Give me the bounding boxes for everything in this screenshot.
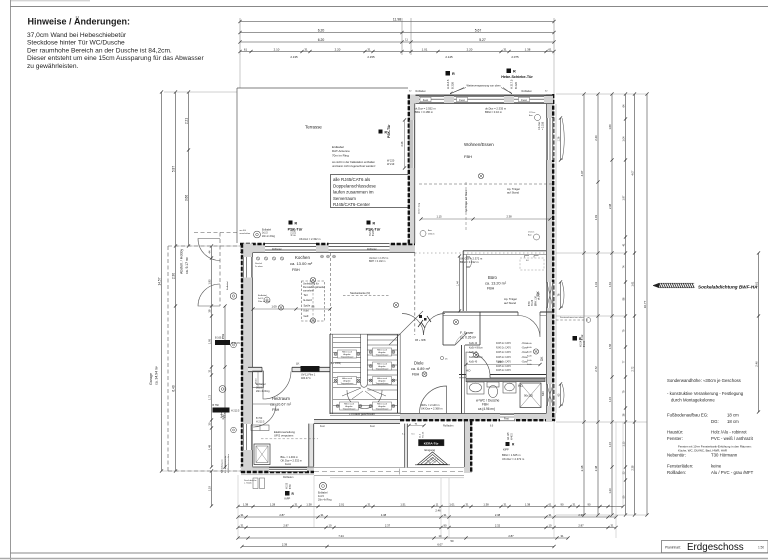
south wall east recessed part: [400, 413, 556, 421]
corridor wall below Buero: [443, 311, 553, 313]
far right dim chain: [758, 253, 760, 412]
svg-text:LK: LK: [296, 362, 300, 366]
svg-text:ca (4.96 m²): ca (4.96 m²): [478, 407, 495, 411]
svg-text:Diele: Diele: [414, 361, 424, 366]
svg-text:Treppenbauer: Treppenbauer: [343, 408, 356, 411]
svg-text:KaSt-H 60cm: KaSt-H 60cm: [469, 347, 483, 350]
corridor dim line: [466, 364, 540, 366]
kitchen socket glyphs: [321, 255, 324, 258]
svg-text:Rollladen: Rollladen: [367, 248, 378, 251]
PSK-Tuer label left: [289, 221, 293, 225]
svg-text:s. Statik: s. Statik: [244, 482, 253, 485]
entrance door in recessed wall: [448, 414, 465, 422]
svg-text:PSK-Tür: PSK-Tür: [387, 124, 391, 138]
vestibule south wall segment: [314, 419, 400, 424]
svg-text:2.38: 2.38: [594, 465, 598, 471]
svg-text:alle RJ45/CAT6 als: alle RJ45/CAT6 als: [333, 177, 371, 182]
svg-text:Erdkabel: Erdkabel: [262, 229, 272, 232]
Hebe-Schiebe-Tuer label and marker: [507, 69, 512, 74]
svg-text:1.38: 1.38: [525, 47, 531, 51]
bottom dimension chains: [238, 506, 623, 508]
svg-text:Kochen: Kochen: [295, 255, 310, 260]
svg-text:Holz /Alu - robinrot: Holz /Alu - robinrot: [711, 430, 747, 435]
svg-text:61: 61: [244, 47, 248, 51]
svg-text:Rollladen: Rollladen: [443, 425, 454, 428]
svg-text:Fest: Fest: [521, 98, 527, 102]
Heizraum appliance box: [254, 444, 270, 465]
west PSK door dim: [403, 118, 406, 121]
Diele east wall (WC block west wall): [461, 345, 463, 414]
svg-text:H 126: H 126: [532, 299, 534, 306]
west wall window (Heizraum): [243, 424, 253, 450]
svg-text:uk 2.38: uk 2.38: [538, 292, 540, 300]
svg-text:1.61: 1.61: [594, 281, 598, 287]
svg-text:RJ45 2x CAT6: RJ45 2x CAT6: [496, 347, 511, 350]
svg-text:B 760: B 760: [213, 404, 220, 407]
svg-text:MO: MO: [541, 391, 545, 396]
east exterior wall: [546, 94, 554, 422]
svg-text:10: 10: [549, 523, 552, 527]
svg-text:Rollladen: Rollladen: [416, 90, 427, 93]
svg-text:B 100: B 100: [584, 340, 586, 347]
svg-text:HO: HO: [466, 369, 471, 373]
svg-text:1.81: 1.81: [594, 214, 598, 220]
svg-text:MW+ = 2.140 m: MW+ = 2.140 m: [421, 403, 439, 407]
svg-text:KaSt 40: KaSt 40: [469, 360, 478, 363]
svg-text:2.145: 2.145: [445, 55, 453, 59]
svg-text:RJ45 2x CAT6: RJ45 2x CAT6: [496, 369, 511, 372]
svg-text:Fensterelement von oben: Fensterelement von oben: [560, 316, 584, 319]
svg-text:20m 4x Ring: 20m 4x Ring: [256, 390, 270, 393]
east wall circle symbol top: [535, 115, 541, 121]
svg-text:2.46: 2.46: [435, 509, 441, 513]
svg-text:1.15: 1.15: [608, 396, 612, 402]
svg-text:Eingang: Eingang: [425, 448, 436, 452]
svg-text:Fest: Fest: [423, 98, 429, 102]
left chain risers: [162, 91, 238, 93]
svg-text:1.19: 1.19: [208, 485, 211, 490]
svg-text:Sonderwandhöhe: ≈30cm je Gesc: Sonderwandhöhe: ≈30cm je Geschoss: [667, 378, 741, 383]
svg-text:+ Podest geschraubt: + Podest geschraubt: [349, 412, 375, 416]
svg-text:2.32: 2.32: [495, 523, 501, 527]
double door arcs Diele-Wohnen opening: [402, 314, 424, 336]
svg-text:PVC - weiß / anthrazit: PVC - weiß / anthrazit: [711, 436, 754, 441]
svg-text:Hinweise / Änderungen:: Hinweise / Änderungen:: [28, 17, 131, 27]
svg-text:H 150: H 150: [287, 482, 289, 489]
east facade R marker: [573, 336, 578, 341]
svg-text:Der raumhohe Bereich an der Du: Der raumhohe Bereich an der Dusche ist 8…: [27, 47, 172, 54]
garage dashed outline: [167, 246, 169, 471]
svg-text:2.30: 2.30: [171, 273, 175, 279]
svg-text:50: 50: [451, 539, 454, 543]
svg-text:400.47 k: 400.47 k: [301, 377, 311, 380]
stair top line: [330, 333, 400, 335]
svg-text:2.01: 2.01: [339, 502, 345, 506]
svg-text:Rollladen: Rollladen: [272, 248, 283, 251]
svg-text:FB + 38B: FB + 38B: [415, 339, 426, 342]
svg-text:2.20: 2.20: [335, 47, 341, 51]
svg-text:Treppenbauer: Treppenbauer: [376, 354, 389, 357]
svg-text:Fest: Fest: [459, 98, 465, 102]
svg-text:KaSt: KaSt: [527, 350, 532, 353]
svg-text:172cm: 172cm: [529, 112, 536, 114]
svg-text:Terrasse: Terrasse: [305, 125, 322, 130]
svg-text:H 217.5: H 217.5: [510, 79, 514, 89]
electrical cluster at door: [419, 315, 422, 318]
svg-text:10: 10: [329, 523, 332, 527]
svg-text:4x1.5: 4x1.5: [225, 412, 227, 418]
svg-text:Alu / PVC - grau /MFT: Alu / PVC - grau /MFT: [711, 470, 754, 475]
svg-text:61: 61: [548, 47, 552, 51]
svg-text:31: 31: [549, 513, 552, 517]
svg-text:Fenster:: Fenster:: [667, 436, 683, 441]
svg-text:18 cm: 18 cm: [727, 413, 739, 418]
svg-text:2.26: 2.26: [401, 141, 404, 146]
svg-text:Durchbrüche: Durchbrüche: [244, 479, 257, 482]
stair labels: [338, 350, 357, 358]
PSK-Tuer label west wall of Wohnen: [379, 130, 383, 134]
svg-text:2.72: 2.72: [594, 366, 598, 372]
svg-text:Treppenbauer: Treppenbauer: [341, 356, 354, 359]
Heizraum small boxes: [253, 371, 264, 388]
svg-text:und kann nicht zugerechnet wer: und kann nicht zugerechnet werden!: [332, 164, 376, 168]
svg-text:172cm: 172cm: [528, 232, 535, 234]
svg-text:1.44: 1.44: [456, 281, 459, 286]
svg-text:20m 4x Ring: 20m 4x Ring: [318, 498, 332, 501]
svg-text:BRH = 1.625 m: BRH = 1.625 m: [502, 453, 521, 457]
washbasin 2: [503, 382, 516, 393]
svg-text:11.98: 11.98: [393, 17, 401, 21]
svg-text:BRH = 0.180 m: BRH = 0.180 m: [415, 110, 434, 114]
svg-text:Gefr.: Gefr.: [304, 314, 310, 318]
Wohnen plant circle: [420, 231, 426, 237]
svg-text:3x1.5: 3x1.5: [262, 233, 268, 235]
svg-text:1.61: 1.61: [608, 281, 612, 287]
svg-text:Fenst: Fenst: [285, 463, 291, 466]
right dimension chains: [583, 94, 585, 515]
svg-text:6.40: 6.40: [171, 385, 175, 391]
below-wall shaft boxes: [253, 478, 258, 489]
svg-text:31: 31: [241, 523, 244, 527]
south exterior wall west part (Heizraum): [241, 467, 314, 474]
WC window DK diagonals: [547, 384, 553, 406]
WC north wall: [459, 374, 546, 376]
svg-text:1.72: 1.72: [207, 394, 211, 400]
svg-text:Fest: Fest: [370, 425, 375, 428]
svg-text:BRH = 0.10 m: BRH = 0.10 m: [485, 110, 503, 114]
svg-text:ca. 13.20 m²: ca. 13.20 m²: [485, 282, 507, 286]
svg-text:4.38: 4.38: [381, 513, 387, 517]
svg-text:2.10: 2.10: [274, 47, 280, 51]
svg-text:T30 Hörmann: T30 Hörmann: [711, 453, 738, 458]
svg-text:31: 31: [504, 502, 507, 506]
svg-text:KaSt: KaSt: [527, 363, 532, 366]
svg-text:Doppelanschlussdose: Doppelanschlussdose: [333, 183, 377, 188]
Buero top wall: [463, 250, 546, 252]
svg-text:zu gewährleisten.: zu gewährleisten.: [27, 63, 78, 70]
svg-text:2.21: 2.21: [184, 118, 188, 124]
wall Kochen/Heizraum: [248, 367, 330, 372]
east window bracket: [562, 118, 564, 160]
svg-text:1.01: 1.01: [422, 47, 428, 51]
Buero west vdim: [459, 256, 461, 311]
svg-text:Erdkabel: Erdkabel: [220, 409, 223, 418]
svg-text:5.67: 5.67: [475, 28, 482, 32]
svg-text:1.38: 1.38: [306, 502, 312, 506]
top dimension chains: [240, 21, 554, 23]
svg-text:1.85: 1.85: [207, 279, 211, 285]
svg-text:2.20: 2.20: [467, 47, 473, 51]
svg-text:14.57: 14.57: [157, 277, 161, 285]
svg-text:1.97: 1.97: [622, 195, 625, 200]
svg-text:Hebe-Schiebe-Tür: Hebe-Schiebe-Tür: [501, 75, 533, 79]
svg-text:KaSt: KaSt: [527, 342, 532, 345]
svg-text:R: R: [295, 221, 298, 225]
svg-text:31: 31: [368, 502, 371, 506]
stair U turn outer: [347, 390, 382, 409]
PSK door in Wohnen west wall: [410, 120, 415, 168]
svg-text:B 160.5: B 160.5: [215, 337, 224, 340]
svg-text:1.26: 1.26: [557, 136, 560, 141]
stair treads right flight: [368, 334, 398, 336]
svg-text:FBH: FBH: [292, 268, 300, 272]
svg-text:Sockelabdichtung BWF-HA: Sockelabdichtung BWF-HA: [698, 284, 757, 289]
Buero west wall: [462, 251, 464, 311]
svg-text:1.01: 1.01: [449, 502, 455, 506]
svg-text:Rollladen: Rollladen: [522, 90, 533, 93]
svg-text:KaSt 40: KaSt 40: [469, 351, 478, 354]
svg-text:1.15: 1.15: [608, 441, 612, 447]
kitchen outlet symbols along terrace wall: [256, 257, 259, 260]
svg-text:Steckd.: Steckd.: [255, 262, 263, 265]
WC toilet: [487, 382, 499, 387]
stair treads left flight: [333, 337, 361, 339]
svg-text:Ap. Träger auf Stand: Ap. Träger auf Stand: [465, 189, 468, 212]
svg-text:1.56: 1.56: [608, 343, 612, 349]
Server closet: [442, 312, 444, 345]
svg-text:RJ45 2x CAT6: RJ45 2x CAT6: [496, 351, 511, 354]
kitchen island dashed: [330, 253, 332, 335]
west facade extra symbols: [231, 342, 237, 348]
svg-text:ca. 10.67 m²: ca. 10.67 m²: [270, 403, 292, 407]
Buero window DK diagonals: [547, 282, 553, 308]
bottom dim risers: [440, 478, 442, 538]
svg-text:Rollladen: Rollladen: [283, 476, 294, 479]
svg-text:61: 61: [549, 502, 552, 506]
svg-text:B 220: B 220: [514, 81, 518, 89]
svg-text:Treppenbauer: Treppenbauer: [376, 408, 389, 411]
svg-text:für Waschmaschine: für Waschmaschine: [227, 453, 230, 473]
svg-text:2.87: 2.87: [279, 513, 285, 517]
svg-text:1.61: 1.61: [631, 281, 634, 286]
svg-text:2.37: 2.37: [385, 523, 391, 527]
svg-text:B 80: B 80: [529, 301, 531, 306]
svg-text:Dieser entsteht um eine 15cm A: Dieser entsteht um eine 15cm Aussparung …: [27, 55, 204, 62]
svg-text:W 219: W 219: [387, 163, 395, 166]
svg-text:PSK-Tür: PSK-Tür: [366, 227, 381, 231]
svg-text:1.38: 1.38: [483, 502, 489, 506]
svg-text:UP/2 verputzen: UP/2 verputzen: [274, 434, 294, 438]
WC door: [466, 374, 490, 379]
svg-text:KaSt: KaSt: [527, 355, 532, 358]
abstell door arcs: [198, 239, 220, 261]
svg-text:3.66: 3.66: [184, 195, 188, 201]
svg-text:1.23: 1.23: [608, 488, 612, 494]
page frame: [10, 0, 12, 560]
svg-text:1.69: 1.69: [608, 124, 612, 130]
svg-text:Nebentür:: Nebentür:: [667, 453, 686, 458]
svg-text:keine: keine: [711, 464, 722, 469]
svg-text:Fensterläden:: Fensterläden:: [667, 464, 693, 469]
svg-text:7.24: 7.24: [338, 534, 344, 538]
svg-text:31: 31: [295, 502, 298, 506]
svg-text:Garage: Garage: [149, 373, 153, 385]
svg-text:10.77: 10.77: [643, 300, 647, 308]
svg-text:1.15: 1.15: [436, 215, 442, 219]
svg-text:5.27: 5.27: [479, 38, 486, 42]
svg-text:Planinhalt:: Planinhalt:: [665, 546, 681, 550]
svg-text:31: 31: [241, 513, 244, 517]
svg-text:RJ45 2x CAT6: RJ45 2x CAT6: [496, 365, 511, 368]
svg-text:Fest: Fest: [320, 425, 325, 428]
east window dim ticks: [560, 118, 562, 160]
svg-text:2.87: 2.87: [508, 534, 514, 538]
svg-text:(B + 1869): (B + 1869): [330, 363, 341, 365]
svg-text:UK-Duz = 2.372 m: UK-Duz = 2.372 m: [502, 457, 525, 461]
svg-text:1.38: 1.38: [243, 502, 249, 506]
corridor door opening: [518, 311, 540, 316]
svg-text:Treppenbauer: Treppenbauer: [341, 382, 354, 385]
door arc Heizraum: [263, 372, 291, 400]
svg-text:OK.Duz = 2.332 m: OK.Duz = 2.332 m: [281, 458, 302, 462]
PSK-Tuer label right: [367, 221, 371, 225]
svg-text:ca. 6.89 m²: ca. 6.89 m²: [411, 367, 431, 371]
vestibule inner line: [241, 474, 314, 476]
entrance arrow triangle: [418, 452, 448, 465]
svg-text:31: 31: [321, 513, 324, 517]
svg-text:1.15: 1.15: [622, 441, 625, 446]
svg-text:2.87: 2.87: [578, 523, 584, 527]
Sockelabdichtung annotation: [659, 283, 694, 288]
svg-text:31: 31: [304, 47, 308, 51]
svg-text:KaSt: KaSt: [527, 359, 532, 362]
bottom right window marker: [506, 442, 510, 446]
svg-text:2.38: 2.38: [506, 215, 512, 219]
svg-text:R: R: [513, 70, 516, 74]
stair center gap: [361, 334, 367, 385]
svg-text:90x125: 90x125: [524, 394, 533, 398]
top dim risers: [239, 18, 241, 55]
svg-text:uk.Duz = 2.552 m: uk.Duz = 2.552 m: [415, 107, 437, 111]
svg-text:Heizraum: Heizraum: [272, 396, 290, 401]
svg-text:ca. 34.94 m²: ca. 34.94 m²: [155, 365, 159, 385]
svg-text:Serverraum: Serverraum: [333, 196, 356, 201]
svg-text:umschalten: umschalten: [240, 232, 251, 235]
svg-text:1.38: 1.38: [525, 502, 531, 506]
svg-text:2.38: 2.38: [608, 203, 612, 209]
Kochen-Diele dashed boundary: [414, 253, 416, 335]
KERA-Tuer black label: [419, 440, 445, 446]
KiPP marker bottom: [285, 491, 290, 496]
svg-text:10: 10: [439, 534, 442, 538]
svg-text:Teil: Teil: [304, 293, 308, 297]
svg-text:E-Herd: E-Herd: [304, 298, 313, 302]
porch east wall connector: [464, 421, 472, 473]
east sill line: [555, 104, 557, 413]
svg-text:H 2.16: H 2.16: [423, 431, 425, 438]
svg-text:1.51: 1.51: [400, 502, 406, 506]
svg-text:KiPP: KiPP: [503, 448, 509, 452]
kitchen cabinet dashed box: [302, 281, 325, 321]
Wohnen interior dim line: [421, 218, 550, 220]
washbasin 1: [467, 382, 484, 394]
svg-text:PSK-Tür: PSK-Tür: [288, 227, 303, 231]
svg-text:KiPP: KiPP: [285, 497, 291, 501]
svg-text:2.38: 2.38: [580, 465, 584, 471]
svg-text:Treppenbauer: Treppenbauer: [376, 382, 389, 385]
svg-text:1.87: 1.87: [498, 361, 503, 364]
Kochen-Wohnen boundary dashed: [415, 252, 546, 254]
east wall windows: [547, 118, 554, 160]
Wohnen west wall (to terrace): [408, 95, 416, 244]
Steckerkante dashed: [343, 295, 390, 297]
terrace outline: [237, 87, 408, 89]
svg-text:KG-Abwasserrohr: KG-Abwasserrohr: [224, 455, 227, 473]
svg-text:B 226: B 226: [451, 81, 455, 89]
svg-text:auf Stand: auf Stand: [507, 190, 519, 194]
svg-text:ca. 13.00 m²: ca. 13.00 m²: [290, 261, 313, 266]
svg-text:Wetterverspannung von oben: Wetterverspannung von oben: [467, 84, 502, 88]
svg-text:FBH: FBH: [464, 154, 472, 159]
Diele glyph: [440, 356, 443, 359]
svg-text:am KG: am KG: [240, 230, 247, 232]
black distribution box LK: [301, 366, 320, 372]
svg-text:4.07: 4.07: [580, 170, 584, 176]
stair lower landing treads: [333, 399, 397, 401]
svg-text:Fußbodenaufbau EG:: Fußbodenaufbau EG:: [667, 413, 708, 418]
svg-text:RJ45/CAT6-Center: RJ45/CAT6-Center: [333, 202, 371, 207]
svg-text:Wohnen/Essen: Wohnen/Essen: [464, 142, 494, 147]
svg-text:110cm lang: 110cm lang: [419, 202, 421, 214]
svg-text:FBH: FBH: [487, 287, 495, 291]
svg-text:DG:: DG:: [711, 419, 719, 424]
WC vanity counter: [466, 378, 545, 382]
svg-text:Abstell. / Hobby: Abstell. / Hobby: [180, 249, 184, 274]
svg-text:Erdgeschoss: Erdgeschoss: [687, 542, 744, 553]
svg-text:Haustür:: Haustür:: [667, 430, 683, 435]
Heizraum door arc lower-left: [253, 404, 276, 427]
svg-text:31: 31: [611, 523, 614, 527]
svg-text:Steckerkante (N): Steckerkante (N): [350, 291, 370, 295]
Rollladen marker R1 (north wall left): [446, 71, 451, 76]
svg-text:KERA-Tür: KERA-Tür: [424, 441, 440, 445]
svg-text:- konstruktive Verankerung - F: - konstruktive Verankerung - Festlegung: [667, 391, 744, 396]
svg-text:2.72: 2.72: [631, 366, 634, 371]
svg-text:= 2.335: = 2.335: [542, 121, 545, 130]
svg-text:183cm: 183cm: [428, 233, 435, 235]
svg-text:1.49: 1.49: [207, 444, 211, 450]
svg-text:uk.Duz = 2.335 m: uk.Duz = 2.335 m: [485, 107, 507, 111]
west wall window (Kochen): [243, 257, 253, 278]
svg-text:laufen zusammen im: laufen zusammen im: [333, 190, 374, 195]
dim above triangle: [409, 425, 424, 427]
bottom facade symbols: [319, 482, 326, 489]
svg-text:2.38: 2.38: [631, 465, 634, 470]
svg-text:H 213.5: H 213.5: [256, 420, 265, 423]
left dimension chains: [161, 92, 163, 471]
svg-text:31: 31: [503, 47, 507, 51]
svg-text:BRH = 0.192 m: BRH = 0.192 m: [369, 260, 385, 263]
